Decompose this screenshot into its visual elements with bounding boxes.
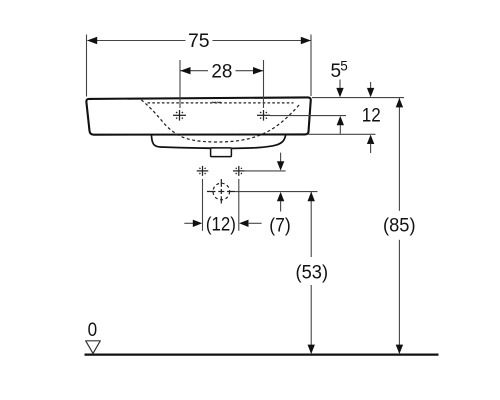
dimension 28 extension line left: [179, 60, 181, 108]
dimension 75 extension line left: [86, 35, 88, 97]
svg-text:12: 12: [362, 105, 381, 126]
svg-text:75: 75: [188, 31, 210, 52]
dimension (12) left arrow: [184, 222, 193, 224]
tap hole cross right: [257, 110, 270, 121]
basin body outline: [86, 97, 310, 134]
dimension (12) extension line left: [202, 179, 204, 231]
dimension (53) line: [310, 192, 312, 257]
fixing hole cross right: [233, 166, 245, 176]
reference line fixing holes level: [244, 170, 285, 172]
dimension 28 extension line right: [263, 60, 265, 108]
dimension (85) line: [398, 98, 400, 211]
dashed bowl outline: [141, 100, 300, 142]
overflow marks (tiny dashes on rim): [213, 102, 221, 103]
reference line tap hole level extended: [270, 115, 346, 117]
tap hole cross left: [173, 110, 186, 121]
dimension 28 line: [180, 70, 208, 72]
dimension (7) upper arrow: [280, 153, 282, 162]
dimension 75 extension line right: [310, 35, 312, 97]
dimension (7) lower arrow: [277, 192, 284, 201]
svg-text:(53): (53): [296, 263, 329, 284]
dimension 5.5 lower arrow: [337, 116, 344, 125]
dimension (53) top arrow: [308, 192, 315, 201]
reference line siphon level: [236, 191, 318, 193]
reference line top edge extended (85/5.5/12 datum): [312, 97, 404, 99]
dimension (12) right arrow: [239, 220, 248, 227]
floor line: [85, 353, 439, 355]
dashed inner rim line: [148, 102, 294, 104]
dimension 75 arrow right: [301, 37, 311, 44]
siphon crosshair: [207, 179, 235, 204]
dimension 5.5 upper arrow: [339, 80, 341, 90]
dimension 75 arrow left: [87, 37, 97, 44]
svg-text:0: 0: [88, 319, 98, 341]
drain / trap connector box: [211, 148, 232, 157]
svg-text:5: 5: [340, 58, 348, 73]
datum level triangle: [86, 341, 101, 354]
dimension 75 line: [88, 40, 186, 42]
dimension 12 lower arrow: [367, 135, 374, 144]
svg-text:28: 28: [211, 61, 232, 82]
dimension 28 arrow left: [180, 67, 190, 74]
dimension 12 upper arrow: [370, 82, 372, 89]
reference line basin bottom extended: [309, 133, 376, 135]
siphon outlet dashed circle: [213, 183, 230, 200]
dimension (53) bottom arrow: [308, 345, 315, 354]
basin apron / skirt: [151, 135, 285, 149]
dimension 28 arrow right: [253, 67, 263, 74]
svg-text:(7): (7): [269, 216, 291, 237]
dimension (12) extension line right: [238, 179, 240, 231]
fixing hole cross left: [197, 166, 209, 176]
dimension (85) top arrow: [396, 98, 403, 107]
dimension (85) bottom arrow: [396, 345, 403, 354]
svg-text:(85): (85): [383, 216, 416, 237]
svg-text:(12): (12): [206, 215, 236, 236]
